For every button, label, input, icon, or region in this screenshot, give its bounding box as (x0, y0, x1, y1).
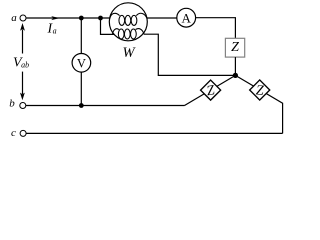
svg-text:a: a (11, 12, 17, 24)
junction node 3 (79, 103, 84, 108)
wire wattmeter voltage coil to star node (144, 34, 236, 75)
wire ammeter to impedance Z1 (196, 18, 236, 39)
arrow Ia (51, 16, 60, 20)
wire a to wattmeter (26, 17, 110, 19)
wire b line (26, 105, 185, 107)
voltage arrow Vab upper (20, 23, 25, 54)
voltage coil of W (112, 29, 144, 39)
svg-text:b: b (9, 97, 15, 109)
wattmeter W (109, 3, 147, 41)
svg-text:Z: Z (255, 83, 264, 98)
wire star node to b line (185, 75, 236, 105)
ammeter A (177, 8, 196, 27)
svg-text:W: W (123, 45, 137, 61)
voltage arrow Vab lower (20, 72, 25, 101)
wire star node to c riser (235, 75, 282, 133)
junction node 2 (98, 16, 103, 21)
wire node1 to voltmeter (80, 18, 82, 54)
star node (233, 73, 238, 78)
current coil of W (110, 13, 147, 25)
wire c line (26, 132, 282, 134)
wire node2 to wattmeter voltage coil (101, 18, 115, 34)
terminal a (20, 15, 26, 21)
wire voltmeter to b line (80, 72, 82, 105)
svg-text:c: c (11, 127, 16, 139)
svg-text:Z: Z (231, 40, 239, 55)
impedance Z2 (201, 80, 221, 100)
wire Z1 to star node (234, 57, 236, 75)
voltmeter V (72, 54, 91, 73)
terminal c (20, 130, 26, 136)
junction node 1 (79, 16, 84, 21)
wire wattmeter to ammeter (147, 17, 177, 19)
terminal b (20, 103, 26, 109)
impedance Z1 (225, 38, 244, 57)
svg-text:V: V (77, 56, 86, 70)
svg-text:A: A (182, 10, 192, 25)
impedance Z3 (250, 80, 270, 100)
